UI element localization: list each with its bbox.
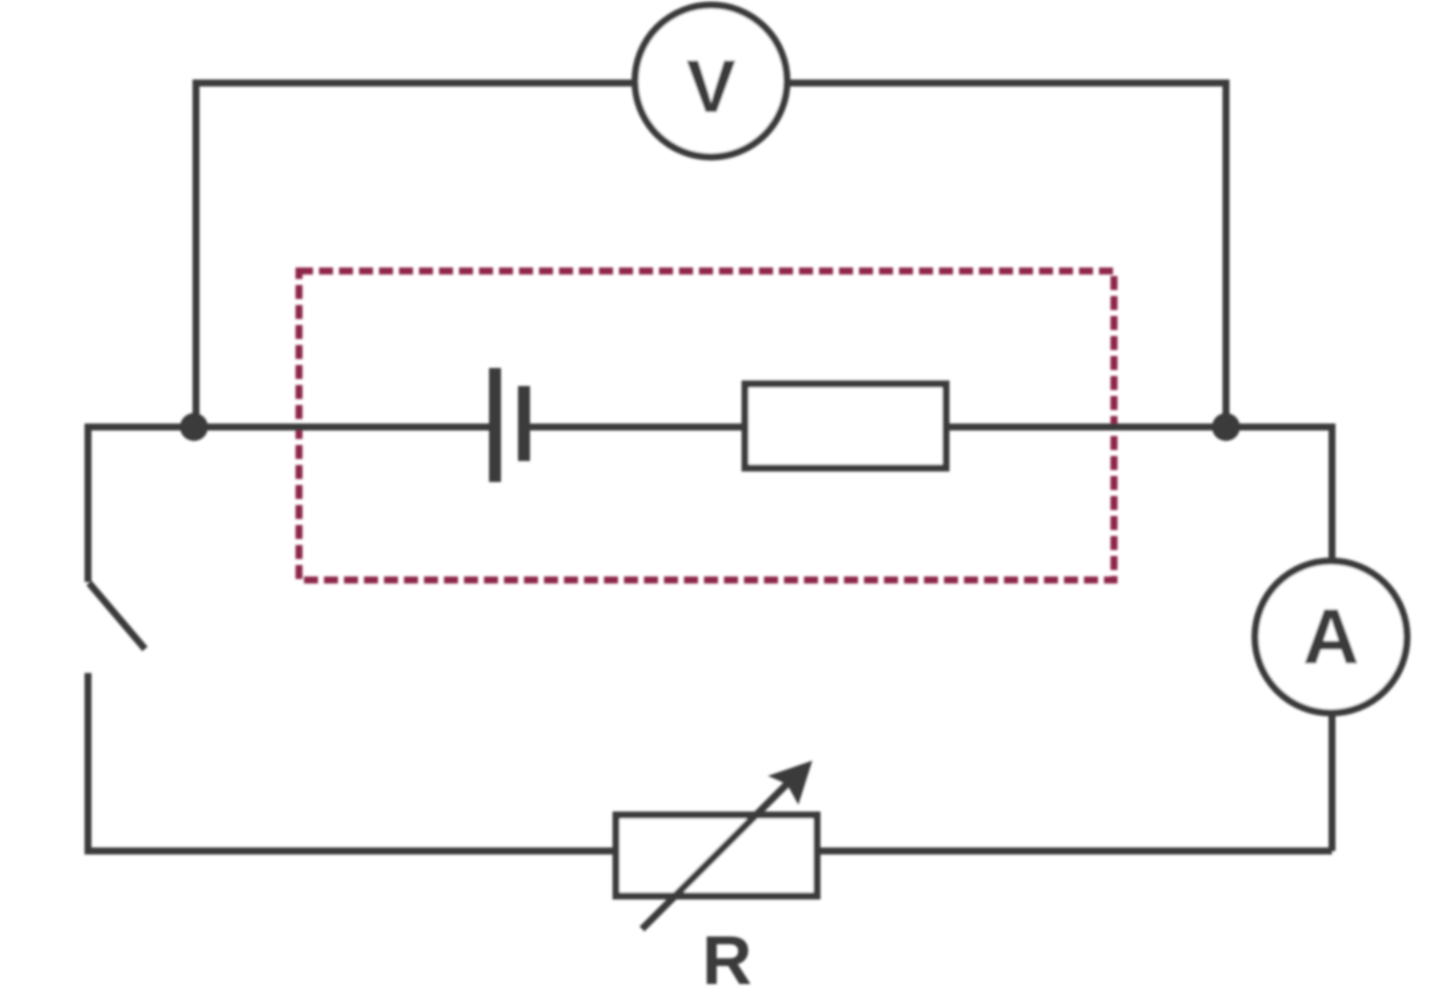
node: left junction dot	[180, 413, 208, 441]
battery cell: short plate (negative)	[518, 386, 530, 461]
node: right junction dot	[1212, 413, 1240, 441]
wire: voltmeter branch right (V across and down to right junction)	[788, 83, 1226, 427]
svg-text:A: A	[1303, 592, 1359, 680]
ammeter A circle	[1255, 561, 1407, 713]
wire: bottom segment (switch bottom contact, bottom rail to right corner)	[88, 673, 1332, 851]
svg-text:V: V	[686, 45, 735, 128]
switch S1 (open blade)	[89, 583, 145, 649]
rheostat arrowhead	[772, 763, 810, 801]
wire: voltmeter branch left (left junction up and across to V)	[196, 83, 634, 427]
wire: main horizontal right segment (battery to right corner down to ammeter)	[524, 427, 1332, 851]
wire: main horizontal left segment (switch top, left corner to battery)	[88, 427, 495, 582]
battery cell: long plate (positive)	[489, 368, 501, 482]
rheostat arrow shaft	[642, 780, 791, 929]
svg-text:R: R	[702, 922, 752, 999]
dashed boundary box (battery internal resistance group)	[299, 271, 1114, 580]
variable resistor R box (rheostat)	[616, 815, 817, 896]
voltmeter V circle	[635, 5, 787, 157]
resistor r (internal resistance box)	[745, 384, 946, 468]
